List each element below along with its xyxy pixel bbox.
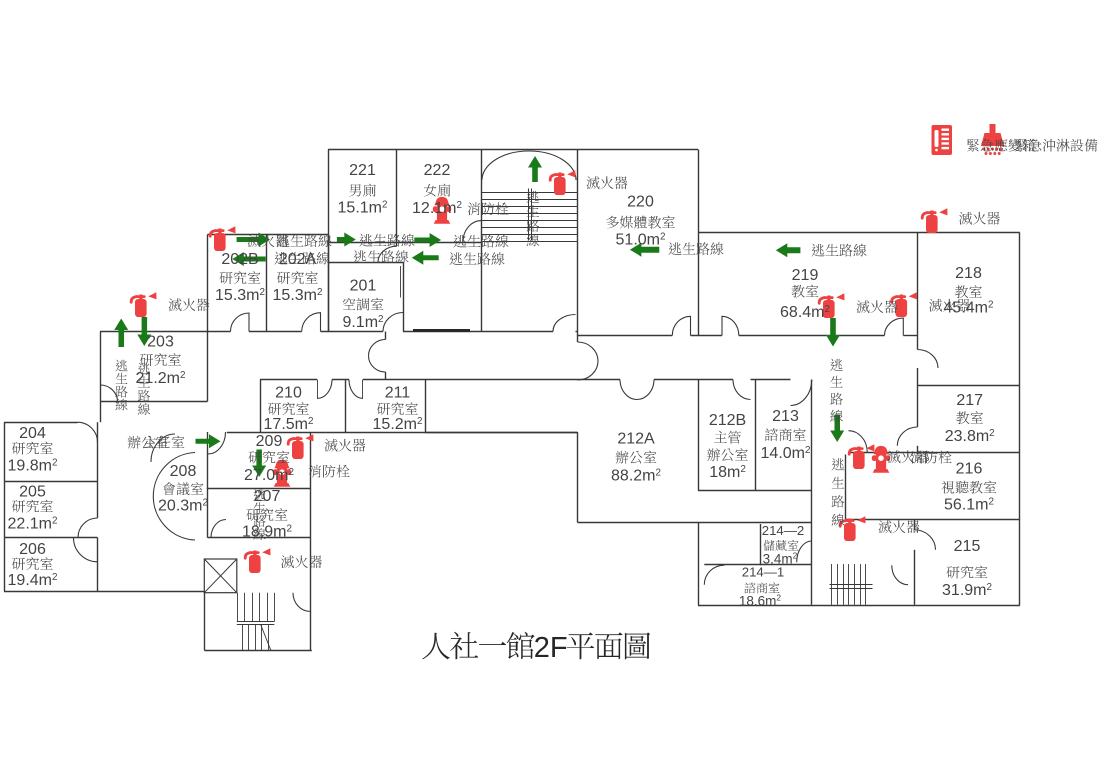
svg-text:19.8m2: 19.8m2 bbox=[8, 458, 58, 475]
extinguisher labels bbox=[248, 234, 289, 247]
svg-text:215: 215 bbox=[954, 538, 981, 555]
rooms 208/209/207 bbox=[227, 432, 578, 434]
corridor cross wall bbox=[385, 332, 387, 340]
svg-text:218: 218 bbox=[955, 265, 982, 282]
202B/202A top wall bbox=[208, 234, 329, 236]
office scribble labels bbox=[128, 436, 169, 449]
svg-text:21.2m2: 21.2m2 bbox=[136, 370, 186, 387]
svg-text:31.9m2: 31.9m2 bbox=[942, 582, 992, 599]
vertical escape labels bbox=[527, 191, 540, 247]
legend emergency cabinet bbox=[932, 125, 953, 155]
svg-text:221: 221 bbox=[349, 162, 376, 179]
svg-text:211: 211 bbox=[385, 385, 411, 402]
room 212A bbox=[577, 336, 579, 343]
escape route labels bbox=[276, 234, 331, 247]
corridor north wall left bbox=[100, 331, 231, 333]
door arcs bbox=[231, 313, 250, 332]
svg-text:219: 219 bbox=[792, 267, 819, 284]
rooms 214-1/214-2 bbox=[760, 524, 762, 565]
svg-text:208: 208 bbox=[170, 463, 197, 480]
corridor north wall right bbox=[578, 335, 673, 337]
title bbox=[422, 632, 535, 660]
lower stairwell bbox=[204, 593, 206, 651]
svg-text:212B: 212B bbox=[709, 412, 746, 429]
hydrant labels bbox=[468, 202, 509, 215]
svg-text:209: 209 bbox=[256, 433, 283, 450]
svg-text:205: 205 bbox=[19, 484, 46, 501]
svg-text:14.0m2: 14.0m2 bbox=[761, 445, 811, 462]
svg-text:202B: 202B bbox=[221, 251, 258, 268]
svg-text:203: 203 bbox=[147, 334, 174, 351]
room 221 left wall bbox=[328, 150, 330, 332]
room 210/211 walls bbox=[260, 380, 262, 433]
svg-text:22.1m2: 22.1m2 bbox=[8, 516, 58, 533]
stair stringer bbox=[528, 189, 530, 241]
room 203 bbox=[100, 332, 102, 423]
svg-text:88.2m2: 88.2m2 bbox=[611, 468, 661, 485]
202B left wall bbox=[207, 235, 209, 402]
svg-text:15.3m2: 15.3m2 bbox=[273, 287, 323, 304]
svg-text:214—2: 214—2 bbox=[762, 523, 805, 538]
svg-text:15.1m2: 15.1m2 bbox=[338, 200, 388, 217]
svg-text:51.0m2: 51.0m2 bbox=[616, 232, 666, 249]
svg-text:20.3m2: 20.3m2 bbox=[158, 498, 208, 515]
svg-text:204: 204 bbox=[19, 425, 46, 442]
corridor south wall bbox=[260, 379, 317, 381]
202A right wall bbox=[328, 235, 330, 332]
wall 205/206 bbox=[4, 537, 98, 539]
svg-text:17.5m2: 17.5m2 bbox=[264, 416, 314, 433]
rooms 212B/213 bbox=[698, 380, 700, 491]
stair arc bbox=[482, 151, 576, 180]
legend emergency shower bbox=[981, 124, 1004, 155]
svg-text:222: 222 bbox=[424, 162, 451, 179]
svg-text:19.4m2: 19.4m2 bbox=[8, 572, 58, 589]
rooms 204-206 outer bbox=[4, 422, 78, 424]
svg-text:27.0m2: 27.0m2 bbox=[244, 467, 294, 484]
room 208 doors bbox=[153, 453, 195, 541]
svg-text:2F: 2F bbox=[534, 632, 568, 664]
svg-text:18.9m2: 18.9m2 bbox=[242, 524, 292, 541]
right wing walls bbox=[698, 232, 1020, 234]
escape arrows bbox=[237, 233, 270, 247]
thick wall segment bbox=[413, 329, 470, 332]
svg-text:210: 210 bbox=[275, 385, 302, 402]
svg-text:206: 206 bbox=[19, 541, 46, 558]
room 220 left wall bbox=[577, 150, 579, 336]
legend labels bbox=[967, 139, 1035, 152]
svg-text:23.8m2: 23.8m2 bbox=[945, 428, 995, 445]
lower-right stairs bbox=[831, 564, 833, 605]
fire hydrants bbox=[433, 197, 451, 224]
fire extinguishers bbox=[550, 170, 575, 195]
room 220 right wall bbox=[698, 150, 700, 336]
room 201 right wall bbox=[403, 263, 405, 332]
svg-text:220: 220 bbox=[627, 194, 654, 211]
elevator shaft bbox=[204, 559, 237, 593]
svg-text:9.1m2: 9.1m2 bbox=[342, 314, 383, 331]
svg-text:212A: 212A bbox=[617, 431, 655, 448]
206 bottom wall bbox=[4, 591, 204, 593]
svg-text:56.1m2: 56.1m2 bbox=[944, 497, 994, 514]
svg-text:18.6m2: 18.6m2 bbox=[739, 593, 782, 609]
svg-text:201: 201 bbox=[350, 278, 377, 295]
svg-text:15.2m2: 15.2m2 bbox=[373, 416, 423, 433]
svg-text:45.4m2: 45.4m2 bbox=[944, 300, 994, 317]
room 201 top wall bbox=[328, 262, 403, 264]
svg-text:214—1: 214—1 bbox=[742, 565, 785, 580]
toilet block top wall bbox=[328, 149, 698, 151]
221/222 bottom wall bbox=[328, 242, 481, 244]
wall 204/205 bbox=[4, 481, 98, 483]
svg-text:15.3m2: 15.3m2 bbox=[215, 287, 265, 304]
svg-text:68.4m2: 68.4m2 bbox=[780, 304, 830, 321]
svg-text:12.1m2: 12.1m2 bbox=[412, 200, 462, 217]
wall 221/222 bbox=[396, 150, 398, 247]
stair treads bbox=[481, 192, 577, 194]
wall 222/stairwell bbox=[481, 150, 483, 332]
wall 202B/202A bbox=[266, 235, 268, 332]
svg-text:213: 213 bbox=[772, 408, 799, 425]
svg-text:216: 216 bbox=[956, 461, 983, 478]
svg-text:217: 217 bbox=[956, 392, 983, 409]
